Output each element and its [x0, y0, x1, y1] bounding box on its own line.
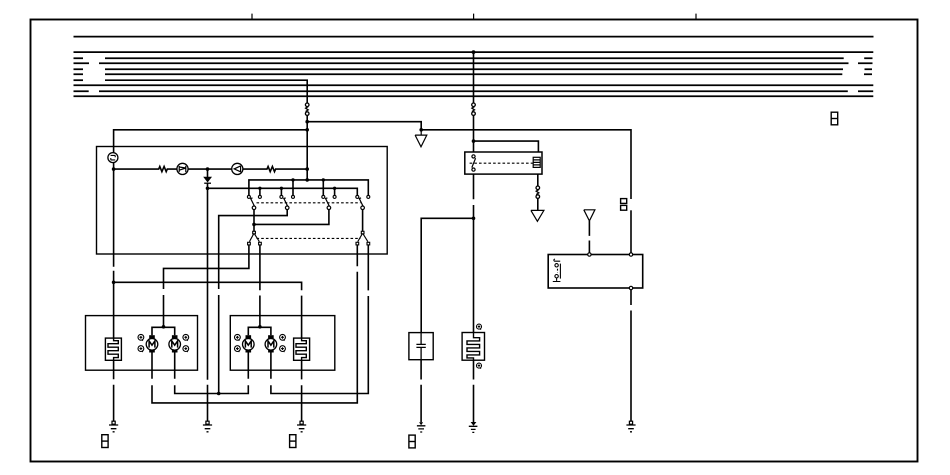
switch arm S1b	[284, 198, 288, 206]
relay U1 link dashed	[470, 162, 533, 164]
wire y188.3 feed rail	[208, 188, 358, 195]
node x307.2 y179.9	[305, 178, 309, 182]
ground G2	[469, 422, 478, 432]
power reference triangle T2	[584, 210, 595, 221]
node x307.2 y169.1	[305, 167, 309, 171]
switch row1 pivots	[252, 206, 364, 210]
bus wire 1	[74, 36, 874, 38]
wire condenser to ground	[420, 360, 422, 423]
wire contact 248.9 to motor box1 feed	[164, 245, 249, 327]
wire with resistor R2	[243, 167, 307, 172]
wire x473.5 below relay	[473, 174, 475, 332]
motor M1	[146, 335, 158, 352]
wire x113.6 breaker down	[113, 169, 115, 338]
motor M4	[265, 335, 277, 352]
internal switch S3	[553, 259, 561, 282]
polarity marks box1	[138, 334, 189, 352]
wire connector to T3	[537, 198, 539, 210]
condenser box	[409, 333, 433, 360]
bus wire 7	[74, 79, 84, 81]
ground reference triangle T1	[415, 130, 427, 147]
connector code box B	[290, 435, 296, 448]
wire F1 to node	[188, 168, 232, 170]
circuit breaker CB	[108, 153, 118, 163]
main wire y169.1 with resistor R1	[114, 167, 177, 172]
switch row1 contacts	[247, 195, 369, 198]
node y179.9 x323.3	[322, 178, 325, 181]
wire pivot4 down	[362, 210, 364, 232]
inline connector on wire x307	[305, 103, 309, 115]
resistor pack1	[105, 338, 121, 360]
wire coil feed y141.1	[474, 141, 539, 152]
node x421 y129.8	[419, 128, 423, 132]
wire y129.8 right segment	[421, 130, 631, 199]
ground reference triangle T3	[531, 210, 544, 221]
relay U1 box	[465, 152, 542, 174]
wire pack2 to ground	[301, 360, 303, 421]
big combination switch box	[97, 147, 388, 255]
wire contact 259.9 to motor box2 feed	[259, 245, 261, 327]
wire washer to ground	[473, 360, 475, 422]
bus wire 4	[74, 62, 873, 64]
bus wire 9	[74, 90, 874, 92]
wire control box to ground	[630, 290, 632, 422]
washer element marks	[477, 324, 482, 369]
terminal x589.4	[588, 253, 591, 256]
wire bus 7 to connector drop	[105, 80, 307, 103]
connector code box A	[102, 435, 108, 448]
terminal bottom x631	[629, 286, 632, 289]
bus wire 10	[74, 95, 874, 97]
bus wire 8	[74, 84, 874, 86]
relay U1 coil	[533, 157, 540, 167]
node x113.6 y169.1	[112, 167, 116, 171]
node x473.5 y218.3	[472, 217, 476, 221]
wire y179.9 feed rail	[249, 180, 368, 196]
wire x218.7 lower	[218, 295, 220, 394]
connector code box C	[409, 435, 415, 448]
wire coil to ground triangle	[537, 174, 539, 186]
motor M3	[243, 335, 255, 352]
node x207.5 y169.1	[206, 167, 210, 171]
wire y282.3 to resistor pack2	[114, 282, 302, 338]
ground G4	[109, 421, 118, 432]
wire motor box1 feed split	[152, 327, 175, 335]
node on bus 2	[472, 50, 476, 54]
bus wire 3	[74, 57, 873, 59]
switch arm S1a	[251, 198, 255, 206]
node motor box2 feed	[258, 325, 262, 329]
bus wire 2	[74, 51, 874, 53]
node x254 y224.4	[252, 223, 256, 227]
breaker to main wire	[113, 163, 115, 170]
wire T2 to control box	[588, 221, 590, 253]
relay U1 contact	[472, 155, 476, 171]
node y188.3 x259.9	[258, 187, 261, 190]
resistor pack2	[294, 338, 310, 360]
wire x473.5 to relay	[473, 115, 475, 152]
wire x631 to control box	[630, 210, 632, 253]
wire y218.3 to capacitor	[421, 218, 473, 332]
ground G5	[203, 421, 212, 432]
mechanical link row2 dashed	[257, 237, 361, 239]
wire pivot2 to x218.7	[219, 210, 288, 289]
switch arm S1d	[359, 198, 363, 206]
switch arm S1c	[326, 198, 330, 206]
wire y121.7 to x421	[307, 122, 421, 130]
diode D1	[207, 169, 209, 177]
ground G1	[417, 422, 426, 432]
bus wire 6	[74, 73, 873, 75]
motor M2	[169, 335, 181, 352]
condenser C1	[416, 333, 425, 360]
node x218.7 y393.5	[217, 392, 221, 396]
wiper motor box2	[230, 316, 334, 371]
node y188.3 x281.4	[280, 187, 283, 190]
wire x307 down	[306, 115, 308, 179]
wire contact 368.3 to motor2 low	[271, 245, 368, 394]
switch row2 right	[356, 231, 370, 245]
washer control box	[548, 255, 643, 289]
inline connector on wire x473.5	[472, 103, 476, 115]
wire pack1 to ground	[113, 360, 115, 421]
node x113.6 y282.3	[112, 281, 116, 285]
ground G3	[626, 421, 635, 432]
terminal x631	[629, 253, 632, 256]
node x307 y129.8	[305, 128, 309, 132]
mechanical link row1 dashed	[257, 202, 361, 204]
node x307 y121.7	[305, 120, 309, 124]
wire pivot1 down	[253, 210, 255, 232]
washer heater element	[462, 333, 484, 361]
wire motor box2 feed split	[248, 327, 271, 335]
noise filter F1	[177, 163, 188, 174]
node x207.5 y188.3	[206, 187, 210, 191]
wiper motor box1	[86, 316, 198, 371]
node motor box1 feed	[162, 325, 166, 329]
wire motor1-motor2 tie	[175, 352, 249, 393]
connector code box D	[831, 112, 838, 125]
wire y129.8 left segment	[114, 130, 308, 153]
diode D2 in circle	[232, 163, 243, 174]
node y188.3 x334.6	[333, 187, 336, 190]
junction connector squares	[621, 199, 627, 211]
bus wire 5	[74, 68, 873, 70]
node y179.9 x293	[291, 178, 294, 181]
wire diode to ground	[207, 183, 209, 421]
wire contact 357.3 to motor1 low	[152, 245, 357, 403]
inline connector below coil	[536, 186, 540, 198]
polarity marks box2	[235, 334, 286, 352]
wire x473.5 from bus	[473, 52, 475, 103]
wire pivot3 to node	[254, 210, 329, 225]
ground G6	[297, 421, 306, 432]
node x473.5 y141.1	[472, 139, 476, 143]
switch row2 left	[248, 231, 262, 245]
